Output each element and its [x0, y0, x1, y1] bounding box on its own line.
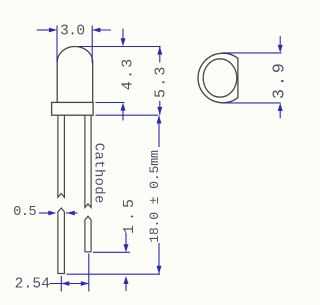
svg-text:0.5: 0.5 [13, 205, 36, 220]
flange top extension line [96, 102, 125, 104]
arrow 5.3 bottom [157, 107, 162, 115]
svg-text:18.0 ± 0.5mm: 18.0 ± 0.5mm [147, 150, 162, 243]
arrow 1.5 top [124, 244, 129, 252]
dim 3.9 top tail [279, 36, 281, 47]
top view inner lens circle [203, 59, 237, 97]
arrow 2.54 left [61, 281, 69, 286]
arrow 18.0 bottom [157, 266, 162, 274]
dim 2.54 left extension line [60, 276, 62, 292]
dim 5.3 line lower segment [159, 101, 161, 115]
right lead lower segment [85, 216, 91, 252]
arrow 2.54 right [81, 281, 89, 286]
dim 4.3 top tail [122, 29, 124, 40]
top view outer flange circle with flat (D shape) [198, 53, 238, 103]
svg-text:2.54: 2.54 [15, 277, 51, 293]
dim 18.0 line lower segment [158, 243, 160, 274]
arrow 4.3 bottom [121, 103, 126, 111]
arrow 3.9 bottom [278, 103, 283, 111]
right lead bottom extension line [93, 251, 130, 253]
dim 3.0 extension line right [91, 26, 93, 64]
arrow 0.5 left [48, 211, 56, 216]
flange [52, 102, 94, 115]
dim 2.54 line [50, 283, 89, 285]
arrow 4.3 top [121, 38, 126, 46]
arrow 1.5 bottom [124, 276, 129, 284]
left lead bottom extension line [67, 273, 161, 275]
dim 2.54 right extension line [88, 254, 90, 292]
left lead upper segment (anode) [58, 115, 65, 197]
right lead upper segment (cathode) [85, 115, 91, 207]
arrow 18.0 top [157, 116, 162, 124]
dim 1.5 lower tail [125, 283, 127, 292]
dim 0.5 right tail [66, 212, 78, 214]
dim 3.9 bottom tail [279, 110, 281, 119]
flange bottom extension line [96, 114, 159, 116]
dimension graphics in blue [37, 26, 282, 292]
svg-text:3.9: 3.9 [270, 60, 289, 99]
arrow 5.3 top [157, 47, 162, 55]
left lead lower segment [58, 208, 65, 274]
svg-text:5.3: 5.3 [153, 64, 170, 98]
dim 5.3 line upper segment [159, 47, 161, 63]
svg-text:1.5: 1.5 [121, 195, 138, 234]
arrow 3.0 right [92, 28, 100, 33]
dim 3.0 right tail [92, 29, 111, 31]
arrow 3.0 left [49, 28, 57, 33]
arrow 3.9 top [278, 45, 283, 53]
svg-text:Cathode: Cathode [90, 143, 106, 204]
svg-text:3.0: 3.0 [60, 23, 84, 39]
dim 1.5 upper tail [125, 233, 127, 245]
dome top extension line [78, 46, 161, 48]
svg-text:4.3: 4.3 [120, 57, 137, 91]
dim 3.0 left tail [37, 29, 50, 31]
top view upper extension line [222, 52, 282, 54]
LED body dome and sides (side view) [57, 47, 92, 103]
dim 3.0 extension line left [56, 26, 58, 63]
arrowheads [48, 28, 282, 286]
top view lower extension line [222, 102, 281, 104]
dim 4.3 bottom tail [122, 110, 124, 121]
arrow 0.5 right [67, 211, 75, 216]
dim 0.5 left tail [39, 212, 50, 214]
dim 18.0 line upper segment [158, 116, 160, 148]
